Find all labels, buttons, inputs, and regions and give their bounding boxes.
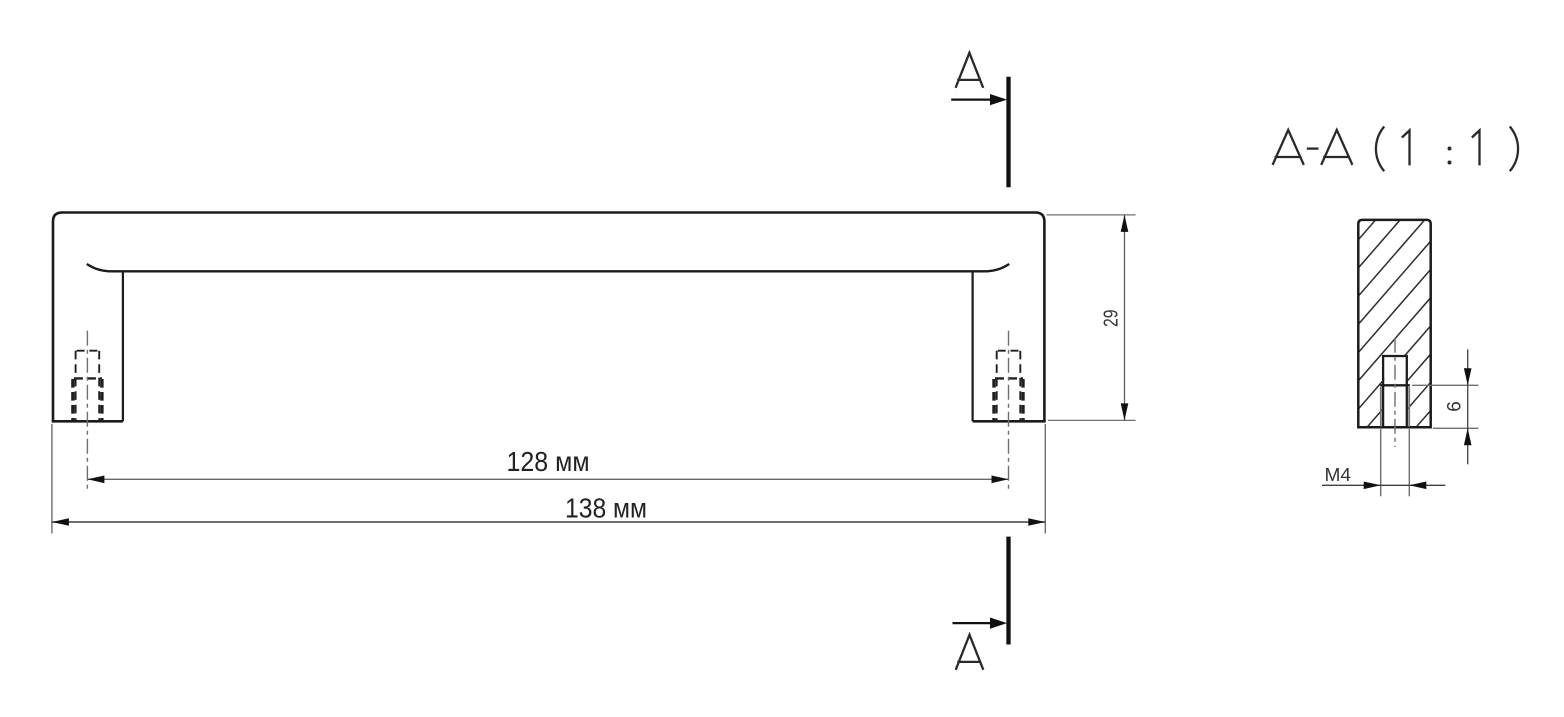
svg-text:6: 6 xyxy=(1445,401,1466,412)
svg-text:29: 29 xyxy=(1101,309,1123,327)
svg-text:128 мм: 128 мм xyxy=(507,446,590,477)
svg-text:138 мм: 138 мм xyxy=(565,492,647,523)
svg-text:M4: M4 xyxy=(1325,465,1352,485)
